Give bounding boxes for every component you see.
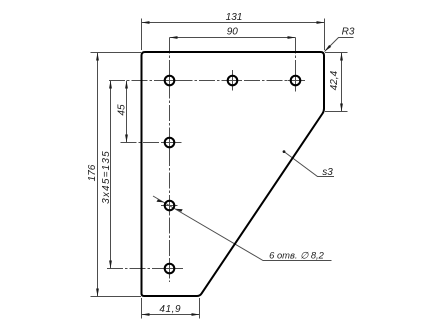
svg-text:3x45=135: 3x45=135 — [101, 150, 112, 204]
svg-text:42,4: 42,4 — [329, 70, 340, 90]
svg-text:131: 131 — [226, 12, 243, 23]
svg-text:R3: R3 — [342, 27, 355, 38]
svg-text:s3: s3 — [322, 167, 333, 178]
svg-text:90: 90 — [227, 27, 239, 38]
svg-text:6 отв. ∅ 8,2: 6 отв. ∅ 8,2 — [269, 249, 325, 260]
svg-text:176: 176 — [87, 164, 98, 181]
svg-text:45: 45 — [116, 104, 127, 116]
svg-text:41,9: 41,9 — [159, 304, 181, 315]
